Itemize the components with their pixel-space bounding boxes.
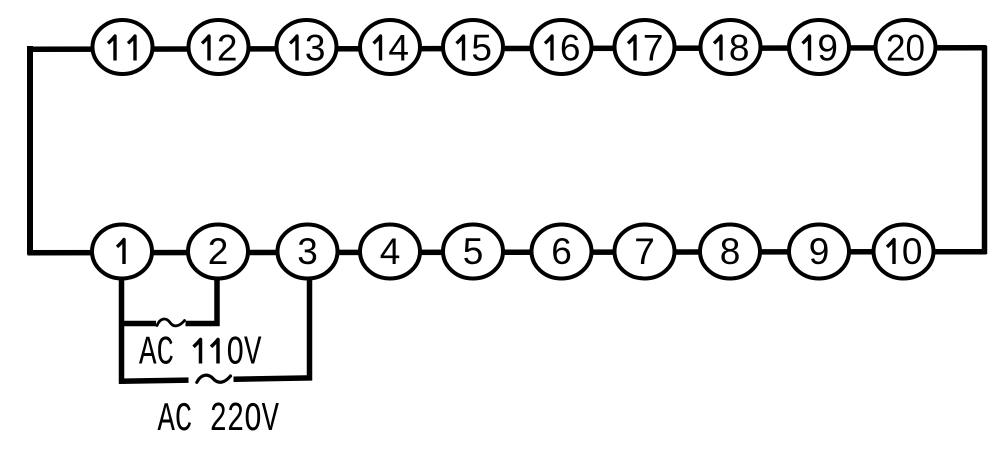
terminal 15 (443, 20, 503, 74)
terminal 1 (92, 225, 152, 279)
svg-text:3: 3 (305, 28, 326, 69)
wire: stub below terminal 3 to AC 220V line (307, 252, 313, 381)
wire: AC 110V line right segment (186, 321, 220, 327)
svg-text:0: 0 (902, 231, 923, 272)
wire: bottom bus connecting terminals 1-10 (28, 252, 987, 253)
wire: stub below terminal 1 to AC 220V line (119, 252, 125, 384)
terminal 14 (360, 20, 420, 74)
svg-text:6: 6 (551, 231, 572, 272)
wire: AC 110V line left segment (119, 321, 156, 327)
terminal 10 (874, 225, 934, 279)
wire: top bus connecting terminals 11-20 (28, 48, 987, 50)
terminal 3 (278, 225, 338, 279)
svg-text:6: 6 (560, 28, 581, 69)
svg-text:5: 5 (463, 231, 484, 272)
AC source symbol ~ (220V) (197, 375, 231, 382)
svg-text:2: 2 (217, 28, 238, 69)
svg-text:8: 8 (729, 28, 750, 69)
terminal 20 (876, 20, 936, 74)
wire: stub below terminal 2 to AC 110V line (214, 252, 220, 326)
terminal 8 (700, 225, 760, 279)
svg-text:2: 2 (208, 231, 229, 272)
wire: AC 220V line right segment (234, 378, 313, 379)
wire: right frame segment (terminal 20 down to terminal 10) (982, 46, 988, 254)
svg-text:5: 5 (471, 28, 492, 69)
terminal 11 (93, 20, 153, 74)
terminal 18 (701, 20, 761, 74)
svg-text:4: 4 (380, 231, 401, 272)
svg-text:4: 4 (388, 28, 409, 69)
terminal 16 (532, 20, 592, 74)
terminal 12 (189, 20, 249, 74)
label: AC 110V (139, 331, 262, 377)
terminal 7 (615, 225, 675, 279)
wire: AC 220V line left segment (119, 380, 189, 381)
wire: left frame segment (terminal 11 down to terminal 1) (27, 46, 33, 255)
svg-text:20: 20 (886, 28, 925, 69)
svg-text:7: 7 (634, 231, 655, 272)
terminal 6 (532, 225, 592, 279)
terminal 5 (443, 225, 503, 279)
terminal 2 (188, 225, 248, 279)
svg-text:9: 9 (817, 28, 838, 69)
terminal 17 (615, 20, 675, 74)
svg-text:9: 9 (809, 231, 830, 272)
terminal 19 (789, 20, 849, 74)
AC source symbol ~ (110V) (157, 319, 185, 326)
svg-text:3: 3 (297, 231, 318, 272)
svg-text:7: 7 (643, 28, 664, 69)
svg-text:8: 8 (720, 231, 741, 272)
svg-text:AC 22OV: AC 22OV (158, 397, 280, 443)
terminal 4 (360, 225, 420, 279)
terminal 13 (277, 20, 337, 74)
terminal 9 (789, 225, 849, 279)
